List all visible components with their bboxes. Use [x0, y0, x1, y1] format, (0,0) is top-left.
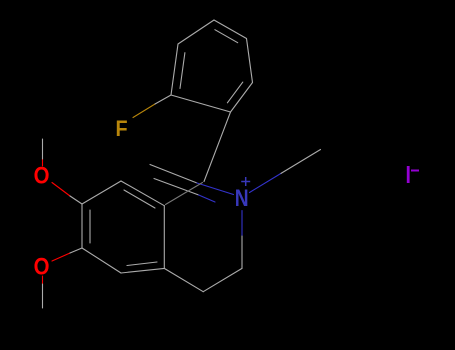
- bond C7-O1 : red half near O: [52, 183, 70, 197]
- wire C4'-C5': [214, 20, 247, 39]
- wire C2'=C3' inner: [180, 53, 185, 89]
- bond F-C2' : gold half near F: [133, 104, 155, 118]
- svg-text:O: O: [34, 253, 50, 280]
- bond C8a-C1 (dim diagonal): [166, 183, 203, 205]
- svg-text:F: F: [115, 117, 127, 141]
- C8=C8a inner: [124, 190, 155, 208]
- C1=N main line (long, white then blue): [150, 165, 197, 184]
- bond C5-C4a: [121, 268, 164, 273]
- wire C3'-C4': [178, 20, 214, 44]
- bond C7-C6: [81, 204, 83, 248]
- label I iodide: [407, 166, 410, 183]
- bond O2-CH3 vertical below: [42, 276, 44, 284]
- C7=C6 inner: [89, 210, 91, 243]
- bond C8a-C8: [121, 181, 164, 206]
- C5=C4a inner: [127, 262, 157, 266]
- bond C4-C4a: [164, 268, 203, 291]
- svg-text:O: O: [34, 162, 50, 189]
- wire C6'=C1' inner: [227, 82, 242, 103]
- bond ipso-C1 steep: [204, 112, 231, 182]
- label + charge as lines: [241, 177, 250, 186]
- wire C5'-C6': [247, 39, 253, 83]
- bond N-C3 vertical: blue half then white: [241, 211, 243, 237]
- bond C3-C4: [203, 268, 242, 291]
- wire C4'=C5' inner: [215, 30, 238, 43]
- wire C2'-C3' left edge: [171, 44, 178, 95]
- bond C6-C5: [82, 248, 121, 273]
- wire C1'ipso-C2' bottom edge: [171, 95, 231, 112]
- bond O1-CH3 vertical above: [42, 159, 44, 166]
- bond C8-C7: [82, 181, 121, 204]
- label minus of iodide as line: [411, 170, 419, 172]
- bond C4a-C8a fused edge: [163, 206, 165, 269]
- wire C6'-C1'ipso: [231, 83, 253, 113]
- bond N-CH3 (straight, blue near N): [250, 173, 282, 192]
- bond C6-O2 : red half near O: [52, 253, 70, 261]
- C1=N inner line: [154, 179, 199, 196]
- svg-text:N: N: [235, 184, 249, 212]
